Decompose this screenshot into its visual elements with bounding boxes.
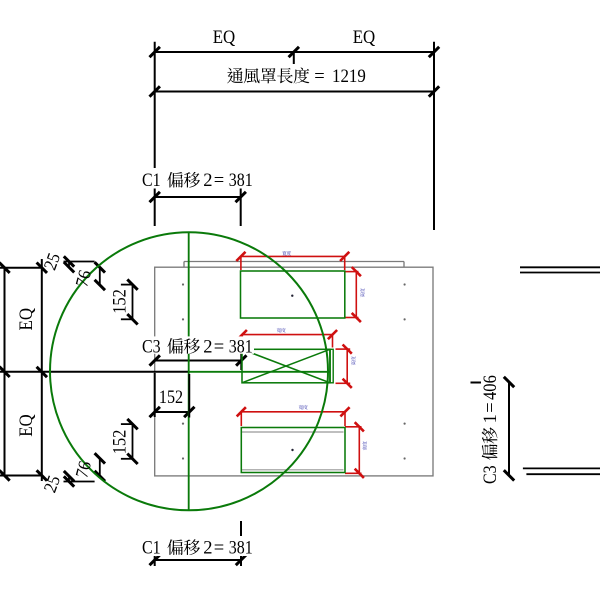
C3 offset1 right dim bbox=[508, 382, 510, 475]
vent3 height dim (red) bbox=[358, 427, 360, 474]
svg-text:=: = bbox=[214, 539, 224, 559]
svg-text:381: 381 bbox=[229, 539, 253, 559]
vent 2 with X (green) bbox=[242, 349, 330, 383]
bottom-left 76 dim bbox=[99, 458, 101, 476]
svg-text:=: = bbox=[314, 67, 324, 87]
152 dim mid bbox=[155, 411, 190, 413]
152 dim right extension line (over green) bbox=[188, 374, 190, 418]
svg-text:2: 2 bbox=[203, 337, 212, 357]
top-left 76 dim bbox=[99, 267, 101, 285]
vent2 height dim (red) bbox=[346, 349, 348, 383]
blue width/height labels bbox=[277, 251, 367, 450]
green circle (hood extent) bbox=[50, 232, 328, 510]
svg-text:152: 152 bbox=[111, 289, 131, 314]
left EQ dim line A bbox=[4, 268, 6, 476]
svg-text:152: 152 bbox=[159, 388, 183, 408]
left vertical line B bbox=[41, 259, 43, 481]
reference dots bbox=[182, 283, 184, 285]
svg-text:2: 2 bbox=[203, 171, 212, 191]
vent2 width dim (red) bbox=[242, 334, 332, 336]
svg-text:C3: C3 bbox=[142, 337, 161, 357]
roof ridge line with end jogs bbox=[184, 261, 404, 263]
C3 offset2 mid dim bbox=[155, 360, 242, 362]
EQ EQ dim line (top) bbox=[155, 51, 434, 53]
blue center dots bbox=[291, 295, 293, 297]
svg-text:2: 2 bbox=[203, 539, 212, 559]
svg-text:EQ: EQ bbox=[17, 414, 37, 437]
svg-text:EQ: EQ bbox=[353, 28, 376, 48]
green vertical center line bbox=[188, 232, 190, 510]
svg-text:EQ: EQ bbox=[213, 28, 236, 48]
top extension lines bbox=[154, 42, 156, 168]
25 labels bbox=[40, 250, 64, 272]
hood length dim line bbox=[155, 91, 434, 93]
svg-text:1: 1 bbox=[481, 414, 501, 423]
76 labels bbox=[71, 268, 95, 289]
svg-text:406: 406 bbox=[481, 375, 501, 400]
top-left 25 dim bbox=[64, 261, 95, 263]
C3 offset1 right label (rotated) bbox=[481, 373, 501, 486]
svg-text:=: = bbox=[214, 171, 224, 191]
ventilation hood outline (plan) bbox=[155, 267, 433, 476]
vent 1 (green) bbox=[241, 271, 345, 318]
svg-text:152: 152 bbox=[111, 430, 131, 455]
hood length label bbox=[227, 68, 243, 84]
svg-text:1219: 1219 bbox=[332, 67, 366, 87]
svg-text:381: 381 bbox=[229, 171, 253, 191]
vent 3 inner gray lines bbox=[242, 431, 344, 433]
right side double lines bottom bbox=[523, 467, 600, 469]
svg-text:=: = bbox=[481, 402, 501, 412]
svg-text:C3: C3 bbox=[481, 465, 501, 484]
svg-text:C1: C1 bbox=[142, 539, 161, 559]
bottom-left 25 dim bbox=[64, 481, 95, 483]
C1 offset2 bottom dim bbox=[155, 559, 241, 561]
svg-text:C1: C1 bbox=[142, 171, 161, 191]
152 labels rotated bbox=[111, 289, 131, 314]
svg-text:=: = bbox=[214, 337, 224, 357]
vent 3 (green) bbox=[241, 428, 345, 473]
vent1 height dim (red) bbox=[355, 272, 357, 318]
vent3 width dim (red) bbox=[241, 411, 345, 413]
svg-text:EQ: EQ bbox=[17, 307, 37, 330]
vent1 width dim (red) bbox=[241, 255, 345, 257]
svg-text:381: 381 bbox=[229, 337, 253, 357]
C1 offset2 top dim bbox=[155, 196, 241, 198]
C3 offset2 mid label bbox=[140, 336, 254, 353]
center horizontal line bbox=[0, 371, 189, 373]
left horizontal extension lines bbox=[0, 267, 43, 269]
green horizontal center line bbox=[189, 371, 330, 373]
EQ labels left (rotated) bbox=[17, 307, 37, 330]
bottom-left 152 dim bbox=[132, 424, 134, 459]
C1 offset2 bottom label bbox=[140, 536, 256, 556]
C1 offset2 top label bbox=[140, 169, 256, 189]
top-left 152 dim bbox=[132, 285, 134, 320]
right side double lines top bbox=[520, 266, 600, 268]
